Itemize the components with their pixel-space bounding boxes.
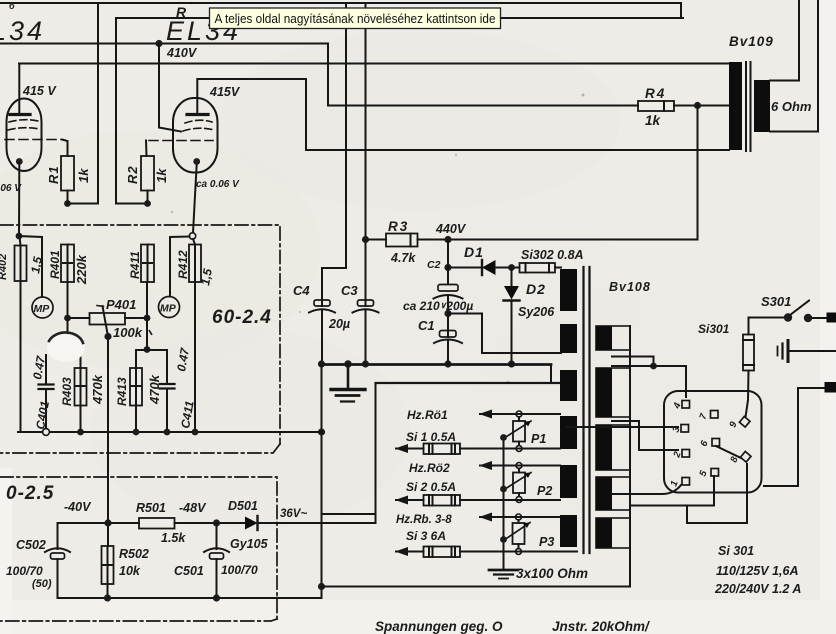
wire vertical from top rail to R1 bottom [68,3,99,204]
resistor R501 [139,518,175,529]
svg-text:R4: R4 [645,86,666,101]
pot P1 top terminal [516,411,522,417]
wire 36V~ line [258,522,376,524]
svg-text:A teljes oldal nagyításának nö: A teljes oldal nagyításának növeléséhez … [215,12,496,26]
svg-text:440V: 440V [435,222,467,236]
fuse F cathode 1.5 [20,236,21,246]
transformer Bv108 right winding R0 [596,326,630,350]
svg-text:415 V: 415 V [22,84,57,98]
node R2 bottom junction [144,200,151,207]
svg-text:36V~: 36V~ [280,508,307,520]
transformer Bv108 right winding R2 [596,425,630,470]
transformer Bv108 core [582,267,584,553]
wire Bv109 secondary top [770,0,799,81]
wire bottom rail [58,597,322,599]
node wiper P2 [500,486,507,493]
tube V1 EL34 envelope [7,99,42,172]
node R413/C411 tee [144,346,151,353]
wire tee to C411 [166,350,168,384]
node R1 bottom junction [64,200,71,207]
pin 6 [712,439,720,447]
svg-text:R1: R1 [46,165,61,184]
svg-text:C1: C1 [418,318,435,333]
tube V2 top cap plate [187,113,208,116]
tooltip box [210,8,501,29]
wire R501 to C501 node [175,522,246,524]
svg-text:MP: MP [34,303,51,315]
boundary 60-2.4 module dash-dot [0,225,280,453]
wire C1 node to Bv108 left winding [448,314,561,354]
diode D501 Gy105 [245,517,258,530]
wire V1 top cap lead [18,64,20,114]
pin 9 [739,416,750,427]
measuring point MP2 [159,297,180,318]
terminal mains L [827,313,836,323]
wire B+ vertical to C3 / R3 node [365,3,367,300]
node C411 bus [164,429,171,436]
transformer Bv108 left winding B2 [560,370,577,401]
ground symbol [347,365,350,389]
wire R2 bottom lead [147,191,149,204]
svg-text:C3: C3 [341,283,358,298]
wire V1 grid to R1 [62,140,68,157]
potentiometer P401 body [90,313,126,325]
resistor R412 [189,245,201,283]
svg-text:R501: R501 [136,501,166,515]
switch S301 [784,313,792,321]
wire R401 bottom to pot node [67,282,69,318]
node wiper P3 [500,536,507,543]
transformer Bv108 left winding B4 [560,465,577,498]
capacitor C411 [160,383,175,385]
resistor R3 [386,234,418,247]
wire V2 grid to R2 [145,141,148,157]
svg-text:20µ: 20µ [328,317,350,331]
resistor R502 [107,523,109,546]
boundary 60-2.5 module dash-dot [0,477,277,621]
wire wiper down to -40V node [107,337,109,524]
node V2 cathode [193,158,200,165]
tube V1 grid dashes [5,120,62,140]
wire -40V node to C502 [58,523,109,549]
node R502 rail [104,594,111,601]
resistor R4 [638,101,674,111]
socket noval outline [664,391,762,493]
wire pot right lead [125,317,147,319]
node C3 ground [362,360,369,367]
capacitor C2 [447,240,449,285]
svg-text:-40V: -40V [64,500,92,514]
resistor R403 [80,351,82,368]
pot P2 bottom terminal [516,497,522,503]
wire link to C-ground column [322,513,376,515]
wire to pin 3 [566,426,678,428]
svg-text:6 Ohm: 6 Ohm [771,99,812,114]
wire pin 8 link [687,464,747,523]
transformer Bv109 secondary bar [754,80,770,132]
svg-text:S301: S301 [761,294,791,309]
node C501 rail [213,594,220,601]
potentiometer P3 [513,523,525,544]
svg-text:D2: D2 [526,281,546,297]
svg-text:C2: C2 [427,259,441,271]
wire R411 bottom to pot node [146,282,148,318]
svg-text:Sy206: Sy206 [518,305,555,319]
svg-text:10k: 10k [119,564,141,578]
svg-text:Si 3 6A: Si 3 6A [406,529,446,543]
wire Hz.Ro2 row with arrow [480,465,560,467]
wire anode line 415V [19,63,729,65]
svg-text:R502: R502 [119,547,149,561]
pin 3 [681,425,689,433]
pin 4 [682,401,690,409]
wire switch to mains terminal [812,317,828,319]
node V1 cathode net [16,233,23,240]
svg-text:ca 0.06 V: ca 0.06 V [196,179,240,190]
fuse Si1 [424,444,461,455]
svg-text:0.06 V: 0.06 V [0,183,22,194]
node C2/D1 [444,264,451,271]
wire R1 bottom lead [67,191,69,204]
svg-text:1.5k: 1.5k [161,531,186,545]
capacitor C4 [314,300,330,306]
wire cathode to MP1 [19,236,42,297]
wire D1 anode lead [448,267,482,269]
wire grid bias bus [18,431,322,433]
wire Bv108 R0 bottom tap [612,357,654,367]
wire V2 top cap route to Bv109 [197,79,729,150]
svg-text:L34: L34 [0,16,45,46]
svg-text:1k: 1k [154,168,169,183]
transformer Bv108 right winding R1 [596,368,630,417]
wire cathode2 to MP2 [170,237,190,297]
svg-text:Si 301: Si 301 [718,544,754,558]
svg-text:R413: R413 [115,377,129,406]
svg-text:220/240V 1.2 A: 220/240V 1.2 A [714,582,801,596]
svg-text:Bv109: Bv109 [729,34,774,49]
svg-text:(50): (50) [32,578,52,590]
svg-text:P401: P401 [106,297,136,312]
svg-text:P1: P1 [531,432,546,446]
svg-text:б: б [9,1,15,11]
node bus432 junction [318,428,325,435]
wire Si1 row with arrow [396,448,424,450]
resistor R1 [61,156,74,191]
wire heater return left edge [375,383,377,523]
resistor R413 [130,368,142,406]
svg-text:470k: 470k [147,374,162,405]
svg-text:410V: 410V [166,46,198,60]
wire pot-right node down [146,318,148,350]
wire D1 to Si302 [496,267,520,269]
node R413 bus [133,429,140,436]
wire mains N terminal [764,388,826,486]
transformer Bv109 primary bar [729,62,742,150]
fuse Si302 [520,263,556,273]
svg-text:R412: R412 [176,250,190,279]
svg-text:Jnstr. 20kOhm/: Jnstr. 20kOhm/ [552,619,650,634]
wire D2 cathode to ground bus [511,301,513,365]
pot P2 top terminal [516,463,522,469]
node C1 ground [444,360,451,367]
node R403 bus [77,429,84,436]
pot P3 top terminal [516,514,522,520]
svg-text:MP: MP [160,303,177,315]
svg-text:60-2.4: 60-2.4 [212,307,272,328]
node R3 input [362,236,369,243]
svg-text:Si 1 0.5A: Si 1 0.5A [406,430,456,444]
node pot right [144,315,151,322]
svg-text:4.7k: 4.7k [390,251,416,265]
transformer Bv108 left winding B0 [560,269,577,311]
fuse Si3 [424,547,461,558]
node C501 top [213,519,220,526]
wire R412 top to cathode node [193,239,195,245]
pin 7 [711,411,719,419]
tube V1 top cap plate [10,113,30,116]
pin 5 [711,469,719,477]
svg-text:R2: R2 [125,165,140,184]
svg-text:100/70: 100/70 [6,564,43,578]
svg-text:P2: P2 [537,484,552,498]
node C4 ground [318,360,325,367]
terminal mains N [825,382,836,393]
wire 410V to V2 screen grid [159,44,181,132]
wire pin 1 link [612,493,662,495]
node 410V junction [155,40,162,47]
resistor R411 [141,245,154,283]
resistor R2 [141,156,154,191]
svg-text:100/70: 100/70 [221,563,258,577]
svg-text:Si302 0.8A: Si302 0.8A [521,248,584,262]
node ground stem [344,360,352,368]
node pin4 feed [650,363,657,370]
wire fuse to bus [20,281,22,432]
diode D1 [481,260,483,275]
wire B+ vertical to C4 branch [322,3,346,300]
node D2 ground [508,360,515,367]
node wiper P1 [500,434,507,441]
node C401 (open) [43,429,50,436]
svg-text:C502: C502 [16,538,46,552]
wire pot wiper bus [503,437,505,570]
wire V1 cathode lead [18,164,20,236]
svg-text:R403: R403 [60,377,74,406]
pin 8 [740,451,751,462]
svg-text:220k: 220k [74,254,89,285]
ground chassis (sideways) [789,350,836,352]
correction blob artifact [47,334,85,362]
svg-text:Hz.Rö2: Hz.Rö2 [409,461,450,475]
wire 410V line [0,44,328,106]
svg-text:R402: R402 [0,254,9,280]
pot P1 bottom terminal [516,446,522,452]
diode D2 [511,268,513,287]
node bottom link junction [318,583,325,590]
fuse Si2 [424,495,461,506]
svg-text:Hz.Rb. 3-8: Hz.Rb. 3-8 [396,514,452,526]
svg-text:C4: C4 [293,283,310,298]
wire 440V node down to C2/D1 node [447,240,449,268]
potentiometer P2 [513,473,525,494]
svg-text:D501: D501 [228,499,258,513]
wire R3 leads [366,239,387,241]
transformer Bv108 right winding R4 [596,518,630,548]
node V2 cathode net (open) [189,233,195,239]
capacitor C501 [216,523,218,549]
wire Hz.Rb.3-8 row with arrow [480,516,560,518]
node 440V [444,236,451,243]
svg-text:Si301: Si301 [698,322,730,336]
fuse Si301 [749,318,785,335]
tube V2 EL34 envelope [173,98,218,173]
svg-text:1,5: 1,5 [198,267,215,286]
svg-text:P3: P3 [539,535,554,549]
node -40V [104,519,111,526]
svg-text:1,5: 1,5 [28,255,45,274]
node D2 tap [508,264,515,271]
svg-text:110/125V 1,6A: 110/125V 1,6A [716,564,798,578]
svg-text:1k: 1k [76,168,91,183]
svg-text:415V: 415V [209,85,241,99]
wire R412 bottom to bus [194,282,196,432]
transformer Bv108 left winding B3 [560,416,577,449]
svg-text:Hz.Rö1: Hz.Rö1 [407,408,448,422]
svg-text:R: R [176,4,187,20]
wire pin 5 [630,476,714,506]
svg-text:Bv108: Bv108 [609,280,651,294]
node R4 output junction [694,102,701,109]
wire heater return bus (box top) [376,382,562,384]
svg-text:R3: R3 [388,219,409,234]
pin 2 [682,450,690,458]
wire -40V to R501 [108,522,139,524]
node V1 cathode [16,158,23,165]
transformer Bv108 left winding B5 [560,515,577,547]
wire R413/C411 tee bar [136,349,167,351]
transformer Bv108 left winding B1 [560,324,577,353]
wire from R4 node down to 440V line [448,106,698,240]
wire Si2 row with arrow [396,499,424,501]
transformer Bv108 right winding R3 [596,477,630,510]
capacitor C1 [440,331,457,338]
label 100k tick [149,330,152,335]
svg-text:C501: C501 [174,564,204,578]
svg-text:3x100 Ohm: 3x100 Ohm [516,566,588,581]
potentiometer P1 [513,421,525,442]
node C1 top [444,310,451,317]
wire right windings common edge down to bottom link [322,326,631,587]
wire selector 6-8 [716,446,741,458]
wire tee to R413 [135,350,137,368]
tube V2 grid dashes [149,120,214,140]
svg-text:Si 2 0.5A: Si 2 0.5A [406,480,456,494]
resistor R401 [61,245,74,283]
wire Hz.Ro1 row with arrow [480,413,560,415]
potentiometer P401 wiper [97,306,104,307]
wire ground bus to winding return [550,365,552,384]
svg-text:0-2.5: 0-2.5 [6,483,54,504]
svg-text:470k: 470k [90,374,105,405]
wire to pin 2 [612,421,678,450]
node R412 bus [192,429,199,436]
wire Si301 to pin 9 [746,371,749,418]
wire pot left lead [68,317,90,319]
wire R4 line from 410V rail to transformer [328,105,638,107]
wire V2 cathode lead [193,164,197,233]
capacitor C502 [45,548,70,552]
svg-text:-48V: -48V [179,501,207,515]
node P401 wiper [104,333,111,340]
wire Si3 row with arrow [396,551,424,553]
capacitor C3 [358,300,374,306]
svg-text:100k: 100k [113,325,143,340]
wire second rail [116,18,683,44]
svg-text:Gy105: Gy105 [230,537,269,551]
svg-text:D1: D1 [464,244,484,260]
measuring point MP1 [32,297,53,318]
svg-text:ca 210∨200µ: ca 210∨200µ [403,299,473,313]
svg-text:1k: 1k [645,113,662,128]
wire pot-left node down to R403 [67,318,69,348]
wire ground bus [322,363,552,366]
wire Si302 to Bv108 primary [555,267,561,269]
svg-text:R411: R411 [128,251,142,279]
node pot left [64,315,71,322]
transformer Bv109 core [745,62,747,151]
wire C-ground column down [321,365,323,599]
capacitor C401 [45,355,47,384]
pot P3 bottom terminal [516,549,522,555]
svg-text:Spannungen geg. O: Spannungen geg. O [375,619,503,634]
wire Bv108 R1 top tap to pin 4 [612,366,686,397]
wire vertical to R2 bottom [116,44,148,204]
wire top B+ rail [0,3,681,18]
pin 1 [682,478,690,486]
svg-text:R401: R401 [48,250,62,279]
wire Bv109 secondary bottom [770,0,818,132]
ground 3x100 [489,569,518,572]
